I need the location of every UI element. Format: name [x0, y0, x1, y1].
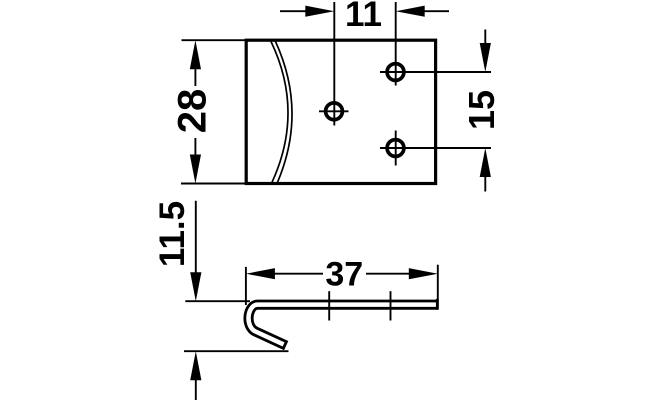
dimension 11.5 lower arrow line (up arrow) — [195, 373, 197, 400]
hole A horizontal centreline — [319, 110, 349, 112]
hole B horizontal centreline / extension line for dim 15 — [380, 71, 491, 73]
svg-text:11: 11 — [345, 0, 382, 34]
dimension 11.5 upper arrow line (down arrow) — [195, 201, 197, 279]
svg-text:37: 37 — [325, 255, 363, 293]
dimension 28 line lower segment with down arrow — [194, 138, 196, 162]
hole B (top right) — [387, 64, 404, 81]
dimension 28 bottom extension line — [181, 183, 246, 185]
dimension 37 line left segment with left arrow — [268, 273, 323, 275]
dimension 11 right arrow — [420, 10, 449, 12]
dimension 37 line right segment with right arrow — [366, 273, 416, 275]
plate outline (top view) — [246, 40, 435, 183]
svg-text:11.5: 11.5 — [153, 201, 192, 267]
dimension 28 line upper segment with up arrow — [194, 62, 196, 86]
side view sheet profile (flat bar with J-hook), black band — [249, 305, 438, 346]
hole C horizontal centreline / extension line for dim 15 — [380, 147, 491, 149]
dimension 11 left arrow — [280, 10, 310, 12]
hole B/C centreline tick on side view — [390, 291, 392, 320]
hole A centreline tick on side view — [328, 291, 330, 320]
svg-text:15: 15 — [461, 90, 502, 130]
hole C (bottom right) — [387, 140, 404, 157]
bend arc inner — [276, 42, 293, 183]
dimension 28 top extension line — [182, 39, 247, 41]
svg-text:28: 28 — [171, 89, 215, 134]
side view sheet profile white core — [249, 305, 438, 345]
dimension 15 lower arrow line — [484, 170, 486, 192]
dimension 15 upper arrow line — [484, 30, 486, 51]
hole C vertical centreline — [395, 131, 397, 166]
dimension 37 right extension line / bar end cap — [437, 265, 439, 309]
dimension 11.5 upper extension line — [185, 300, 250, 302]
hole A (centre hole) — [326, 103, 343, 120]
dimension 11.5 lower extension line — [184, 350, 289, 352]
hole B vertical centreline / extension line for dim 11 — [395, 2, 397, 86]
bend arc outer — [271, 42, 288, 183]
hole A vertical centreline / extension line for dim 11 — [333, 2, 335, 126]
dimension 37 left extension line — [245, 267, 247, 305]
